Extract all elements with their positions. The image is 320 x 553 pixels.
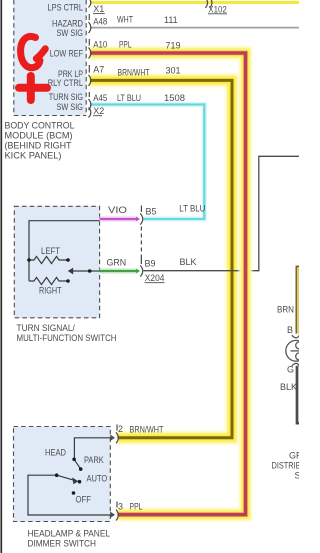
svg-text:1508: 1508 [164, 93, 185, 103]
red marker plus [19, 76, 47, 100]
svg-text:HEAD: HEAD [45, 447, 66, 457]
BCM box fill [14, 0, 87, 116]
svg-text:PARK: PARK [84, 455, 104, 465]
svg-text:MULTI-FUNCTION SWITCH: MULTI-FUNCTION SWITCH [17, 333, 117, 343]
svg-text:A7: A7 [93, 64, 104, 74]
wire PPL 719 highlighted [90, 53, 246, 515]
wire WHT 111 [90, 27, 299, 29]
svg-text:BLK: BLK [180, 257, 197, 267]
svg-text:A10: A10 [93, 39, 107, 49]
bulb pin B bracket [292, 335, 300, 338]
connector X204 brackets B5 B9 [140, 206, 142, 277]
svg-text:3: 3 [118, 501, 123, 511]
svg-text:111: 111 [164, 15, 178, 25]
svg-text:BLK: BLK [280, 382, 297, 392]
dimmer pin 2 arrow bracket [110, 425, 118, 444]
dimmer contact dots [72, 458, 76, 462]
svg-text:PPL: PPL [119, 39, 132, 49]
svg-text:SW SIG: SW SIG [57, 28, 84, 38]
connector X102 marks [205, 0, 212, 8]
svg-text:LOW REF: LOW REF [50, 49, 84, 59]
VIO arrow [136, 217, 140, 222]
BCM box dashed border [14, 0, 86, 116]
svg-text:BRN/WHT: BRN/WHT [118, 67, 150, 77]
wire VIO [100, 216, 137, 221]
svg-text:X102: X102 [208, 4, 227, 14]
svg-text:B9: B9 [145, 259, 156, 269]
svg-text:TURN SIG: TURN SIG [49, 92, 83, 102]
pin A48 bracket [89, 22, 91, 33]
wire BRN to bulb [296, 267, 299, 334]
svg-text:DIMMER SWITCH: DIMMER SWITCH [28, 538, 97, 548]
svg-text:VIO: VIO [108, 205, 127, 215]
svg-text:A45: A45 [93, 93, 107, 103]
turn signal box dashed border [14, 206, 99, 317]
svg-text:MODULE (BCM): MODULE (BCM) [5, 130, 73, 140]
svg-text:DISTRIBUTION: DISTRIBUTION [272, 461, 300, 471]
svg-text:B: B [287, 325, 293, 335]
svg-text:RLY CTRL: RLY CTRL [48, 78, 83, 88]
svg-text:X1: X1 [93, 4, 104, 14]
dimmer pin 3 arrow bracket [110, 502, 118, 521]
pin X1 bracket [89, 0, 91, 8]
dimmer HEAD-PARK lever [74, 459, 81, 469]
svg-text:LEFT: LEFT [41, 246, 60, 256]
svg-text:LT BLU: LT BLU [117, 93, 141, 103]
wire ORN X1 top highlighted [90, 0, 299, 7]
resistor RIGHT [29, 277, 68, 284]
svg-text:WHT: WHT [117, 14, 133, 24]
svg-text:RIGHT: RIGHT [39, 286, 62, 296]
svg-text:301: 301 [166, 66, 181, 76]
svg-text:A48: A48 [93, 16, 107, 26]
svg-text:LPS CTRL: LPS CTRL [48, 3, 84, 13]
bulb pin G bracket [292, 363, 300, 366]
svg-text:G: G [287, 365, 294, 375]
pin A10 bracket [89, 48, 91, 59]
wire GRN [100, 268, 137, 273]
svg-text:2: 2 [118, 424, 123, 434]
turn switch wiper feed wire [90, 270, 100, 272]
junction dots turn switch [27, 258, 31, 262]
svg-text:GROUND: GROUND [289, 451, 299, 461]
headlamp dimmer box dashed border [14, 427, 111, 522]
svg-text:KICK PANEL): KICK PANEL) [5, 150, 62, 160]
wire LT BLU 1508 [90, 105, 204, 220]
page left border [0, 0, 2, 553]
wire BLK from B9 to right frame [144, 156, 300, 270]
svg-text:HEADLAMP & PANEL: HEADLAMP & PANEL [28, 528, 111, 538]
dimmer wiper lever to AUTO [57, 475, 75, 480]
svg-text:OFF: OFF [76, 494, 92, 504]
turn switch wiper [72, 270, 90, 272]
BCM pin brackets [89, 0, 91, 118]
wire BLK bulb ground [297, 366, 299, 423]
svg-text:X2: X2 [93, 106, 104, 116]
svg-text:AUTO: AUTO [87, 473, 108, 483]
GRN arrow [136, 269, 140, 274]
dimmer switch internal wire pin2 to HEAD [74, 438, 111, 459]
svg-text:719: 719 [166, 40, 181, 50]
bulb lamp symbol [286, 340, 307, 361]
headlamp dimmer box fill [14, 427, 111, 522]
svg-text:BRN: BRN [277, 304, 294, 314]
svg-text:TURN SIGNAL/: TURN SIGNAL/ [17, 323, 76, 333]
svg-text:SW SIG: SW SIG [57, 102, 84, 112]
pin A7 bracket [89, 75, 91, 86]
svg-text:GRN: GRN [107, 257, 127, 267]
svg-text:SCHEMATIC: SCHEMATIC [295, 471, 300, 481]
svg-text:BODY CONTROL: BODY CONTROL [5, 120, 75, 130]
svg-text:LT BLU: LT BLU [179, 204, 205, 214]
pin X2 bracket [89, 108, 91, 118]
resistor LEFT [29, 256, 68, 263]
svg-text:(BEHIND RIGHT: (BEHIND RIGHT [5, 140, 72, 150]
svg-text:B5: B5 [146, 206, 157, 216]
wire BRN/WHT 301 highlighted [90, 80, 232, 437]
turn switch internal wire to VIO [29, 221, 100, 281]
pin A45 bracket [89, 99, 91, 110]
svg-text:X204: X204 [145, 273, 165, 283]
turn signal box fill [14, 206, 99, 318]
text labels BCM interior [48, 3, 84, 113]
red marker G [21, 36, 46, 67]
svg-text:BRN/WHT: BRN/WHT [130, 424, 164, 434]
svg-text:HAZARD: HAZARD [52, 19, 83, 29]
svg-text:PPL: PPL [130, 501, 143, 511]
dimmer internal wire pin3 to pivot [28, 475, 111, 515]
